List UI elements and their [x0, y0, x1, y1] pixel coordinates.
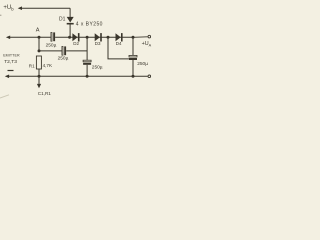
wire bottom rail with left arrow and minus	[5, 71, 148, 79]
resistor R1	[36, 56, 41, 69]
wire rail2 to +UA terminal	[133, 36, 148, 39]
wire D3/D4 junction down and right to output cap	[108, 37, 129, 59]
terminal bottom right	[148, 75, 151, 78]
junction node A branch / series cap branch	[38, 49, 41, 52]
svg-text:250µ: 250µ	[46, 43, 57, 49]
capacitor 250µ (shunt at D2/D3)	[83, 60, 91, 65]
wire D1 cathode to rail2	[69, 25, 71, 38]
svg-text:+Ub: +Ub	[3, 5, 14, 11]
node A	[36, 28, 41, 39]
paper speck left edge	[0, 15, 1, 16]
svg-text:250µ: 250µ	[58, 56, 69, 62]
junction R1 / bottom rail	[38, 75, 41, 78]
svg-text:R1: R1	[29, 63, 35, 68]
capacitor 250µ (series in rail2)	[51, 32, 55, 41]
svg-text:C1,R1: C1,R1	[38, 91, 51, 96]
svg-text:4,7K: 4,7K	[43, 63, 53, 68]
wire lower branch to cap	[39, 50, 62, 52]
diode D4	[116, 33, 123, 41]
junction cap2 / bottom rail	[86, 75, 89, 78]
junction D3/D4 with drop wire	[107, 36, 110, 39]
wire rail2 with left arrow (emitter input)	[6, 36, 133, 40]
capacitor 250µ (output)	[129, 55, 137, 60]
capacitor 250µ (series in lower branch)	[62, 46, 66, 55]
diode D2	[72, 33, 79, 41]
svg-text:EMITTER: EMITTER	[3, 54, 20, 58]
svg-text:250µ: 250µ	[137, 61, 148, 67]
svg-text:T2,T3: T2,T3	[4, 59, 17, 65]
wire top rail +Ub with left arrow	[18, 6, 70, 17]
svg-text:250µ: 250µ	[92, 65, 103, 71]
terminal +UA	[142, 35, 152, 47]
wire node A down to lower branch	[38, 37, 40, 51]
wire lower branch cap to D2/D3 junction drop	[66, 50, 87, 52]
wire D2/D3 junction down to cap	[86, 37, 88, 60]
svg-text:D3: D3	[95, 41, 101, 46]
junction output cap / bottom rail	[132, 75, 135, 78]
svg-text:A: A	[36, 28, 40, 34]
junction rail2 / output cap	[132, 36, 135, 39]
label EMITTER T2,T3	[3, 54, 20, 65]
wire output cap to bottom rail	[132, 60, 134, 76]
wire R1 to bottom rail	[38, 69, 40, 76]
junction D1 cathode / D2 anode	[68, 36, 71, 39]
svg-text:D1: D1	[59, 16, 66, 22]
svg-text:D2: D2	[73, 41, 79, 46]
junction D2/D3 with drop wire	[86, 36, 89, 39]
wire +UA junction down to output cap	[132, 37, 134, 55]
diode D1	[67, 17, 74, 25]
svg-text:D4: D4	[116, 41, 122, 46]
paper smudge bottom left	[0, 95, 9, 98]
wire cap to bottom rail	[86, 65, 88, 77]
diode D3	[95, 33, 102, 41]
wire C1,R1 down arrow	[37, 76, 41, 88]
svg-text:4 x BY250: 4 x BY250	[76, 21, 103, 27]
